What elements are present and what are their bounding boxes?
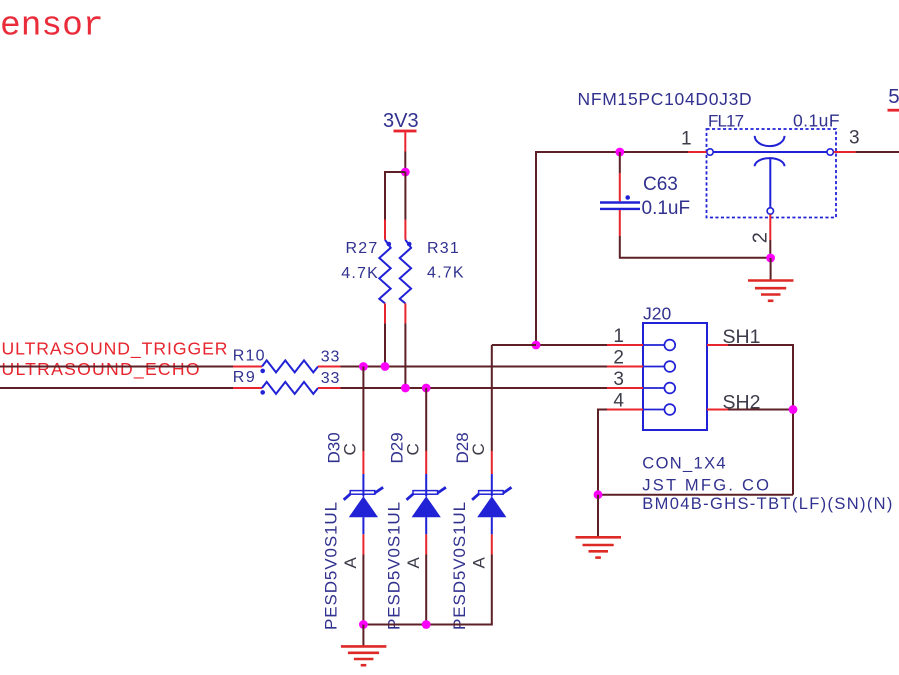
svg-text:3: 3: [849, 128, 860, 149]
wire echo to J20 pin3: [341, 387, 608, 389]
node C63 tap: [615, 148, 624, 157]
pin R31 top: [404, 220, 406, 240]
svg-text:A: A: [404, 557, 423, 569]
diode D29: [384, 388, 446, 630]
svg-text:C: C: [341, 443, 360, 455]
wire diode gnd bus: [363, 624, 492, 626]
wire 3V3 to junction: [404, 152, 406, 173]
pin R31 bottom: [404, 303, 406, 323]
ground diodes: [341, 625, 387, 666]
pin J20-1: [607, 344, 643, 346]
resistor R27: [341, 240, 391, 304]
3V3 bar: [394, 130, 417, 133]
wire trigger to J20 pin2: [341, 366, 608, 368]
svg-text:0.1uF: 0.1uF: [642, 198, 691, 219]
svg-text:33: 33: [321, 348, 340, 365]
svg-text:2: 2: [613, 348, 624, 369]
svg-text:1: 1: [681, 129, 692, 150]
power symbol 3V3: [383, 110, 419, 152]
node trigger/D30: [359, 362, 368, 371]
svg-text:BM04B-GHS-TBT(LF)(SN)(N): BM04B-GHS-TBT(LF)(SN)(N): [642, 495, 893, 513]
node rail/J20: [532, 341, 541, 350]
svg-text:R27: R27: [346, 240, 379, 257]
svg-text:Sensor: Sensor: [0, 7, 104, 46]
svg-text:C63: C63: [643, 174, 678, 195]
svg-text:3V3: 3V3: [383, 110, 419, 132]
capacitor C63: [600, 152, 690, 236]
svg-text:R31: R31: [427, 240, 460, 257]
pin SH2: [707, 409, 728, 411]
pin R27 top: [384, 220, 386, 240]
resistor R9: [233, 369, 340, 395]
pin J20-4: [607, 409, 643, 411]
node gnd J20: [594, 490, 603, 499]
svg-text:A: A: [469, 557, 488, 569]
power symbol 5V: [888, 85, 899, 112]
svg-text:FL17: FL17: [708, 112, 744, 131]
svg-text:4.7K: 4.7K: [427, 265, 465, 282]
svg-text:ULTRASOUND_TRIGGER: ULTRASOUND_TRIGGER: [2, 338, 229, 359]
node trigger/R27: [381, 362, 390, 371]
pin FL17-2: [769, 215, 771, 240]
wire shields to gnd: [598, 494, 793, 496]
node echo/D29: [422, 384, 431, 393]
svg-text:NFM15PC104D0J3D: NFM15PC104D0J3D: [578, 89, 753, 109]
node echo/R31: [401, 384, 410, 393]
connector J20: [643, 304, 707, 431]
wire branch to R31: [404, 172, 406, 220]
svg-text:1: 1: [613, 326, 624, 347]
wire R27 to trigger net: [384, 323, 386, 366]
svg-text:JST MFG. CO: JST MFG. CO: [642, 477, 771, 495]
svg-text:PESD5V0S1UL: PESD5V0S1UL: [450, 501, 469, 630]
svg-text:PESD5V0S1UL: PESD5V0S1UL: [322, 501, 341, 630]
pin R10 left: [233, 366, 262, 368]
pin J20-2: [607, 366, 643, 368]
svg-text:C: C: [403, 443, 422, 455]
wire echo net left: [0, 387, 233, 389]
wire FL17-2 to gnd: [769, 240, 771, 258]
wire rail to D28: [492, 344, 536, 346]
node gnd filter: [766, 254, 775, 263]
svg-text:5V: 5V: [888, 85, 899, 108]
ground filter: [748, 258, 794, 301]
wire 5V rail to J20 pin1: [536, 152, 688, 345]
svg-text:33: 33: [321, 370, 340, 387]
pin FL17-1: [688, 151, 706, 153]
svg-text:R9: R9: [233, 369, 256, 386]
svg-text:J20: J20: [643, 304, 671, 324]
svg-text:CON_1X4: CON_1X4: [642, 454, 727, 472]
connector body: [643, 323, 707, 430]
wire trigger net left: [0, 366, 233, 368]
wire branch to R27: [385, 172, 405, 220]
pin R9 left: [233, 387, 262, 389]
svg-text:C: C: [469, 443, 488, 455]
svg-text:PESD5V0S1UL: PESD5V0S1UL: [384, 501, 403, 630]
svg-text:2: 2: [749, 232, 771, 243]
wire to 5V edge: [856, 151, 899, 153]
svg-text:A: A: [341, 557, 360, 569]
pin FL17-3: [834, 151, 856, 153]
ground J20: [576, 495, 622, 558]
svg-text:0.1uF: 0.1uF: [793, 111, 840, 131]
5V bar: [888, 109, 899, 112]
wire R31 to echo net: [404, 323, 406, 388]
pin R9 right: [318, 387, 341, 389]
pin R10 right: [318, 366, 341, 368]
filter FL17: [681, 111, 860, 244]
pin J20-3: [607, 387, 643, 389]
node SH junction: [789, 405, 798, 414]
node D30 gnd: [359, 620, 368, 629]
resistor R10: [233, 348, 340, 374]
svg-text:4.7K: 4.7K: [341, 265, 379, 282]
svg-text:4: 4: [613, 391, 624, 412]
pin SH1: [707, 344, 728, 346]
node D29 gnd: [422, 620, 431, 629]
wire SH2: [728, 409, 793, 411]
diode D30: [322, 367, 384, 631]
svg-text:ULTRASOUND_ECHO: ULTRASOUND_ECHO: [2, 359, 201, 380]
svg-text:R10: R10: [233, 348, 266, 365]
wire J20-4 down: [598, 410, 607, 495]
pin R27 bottom: [384, 303, 386, 323]
wire C63 to gnd node: [620, 236, 771, 258]
svg-text:3: 3: [613, 369, 624, 390]
diode D28: [450, 345, 512, 630]
node junction 3V3: [401, 168, 410, 177]
wire SH1 down: [728, 345, 793, 495]
resistor R31: [400, 240, 465, 304]
